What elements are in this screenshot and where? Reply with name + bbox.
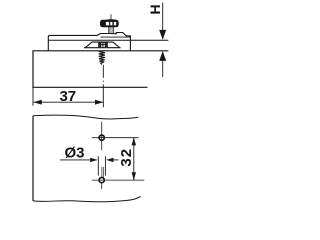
hole inner pair lines above lower hole xyxy=(101,167,103,177)
lower hole horizontal centerline xyxy=(92,179,145,181)
panel left edge (plan view) xyxy=(32,116,34,201)
svg-text:H: H xyxy=(147,4,163,14)
diameter 3 right arrow xyxy=(106,158,113,162)
panel top break edge xyxy=(33,115,139,119)
arrow right of 37 xyxy=(95,100,103,105)
plate mid line xyxy=(100,36,130,38)
cam screw neck xyxy=(108,27,110,34)
dimension 32 line xyxy=(133,138,135,181)
dimension H: lower arrow (up) xyxy=(159,51,166,61)
panel bottom edge (side view) xyxy=(32,86,147,88)
dome base line xyxy=(84,47,121,49)
extension line left xyxy=(32,87,34,106)
cam screw head (top) xyxy=(104,19,118,23)
plate wing line (upper H extension) xyxy=(48,39,168,41)
dimension H: upper arrow (down) xyxy=(162,3,164,39)
lower hole xyxy=(99,178,104,183)
diameter 3 extension lines xyxy=(97,156,99,175)
upper hole xyxy=(99,135,104,140)
panel bottom break edge xyxy=(33,197,141,202)
dimension 37 line xyxy=(34,101,104,103)
arrow left of 37 xyxy=(33,100,41,105)
wood screw thread xyxy=(101,50,103,53)
dome trapezoid xyxy=(85,42,119,48)
diameter 3 left arrow xyxy=(90,158,97,162)
32 top arrow (up) xyxy=(132,137,136,145)
panel left edge (side view) xyxy=(32,50,34,87)
cam screw centerline above head xyxy=(110,14,112,20)
screw axis extension line xyxy=(102,65,104,78)
upper hole horizontal centerline xyxy=(92,137,139,139)
svg-text:Ø3: Ø3 xyxy=(64,145,84,162)
32 bottom arrow (down) xyxy=(132,172,136,180)
panel top surface line (side view, also lower H extension) xyxy=(33,50,168,52)
upper hole vertical centerline xyxy=(101,122,103,150)
lower hole vertical centerline below xyxy=(101,184,103,190)
svg-text:32: 32 xyxy=(118,148,135,167)
diameter 3 leader line xyxy=(60,159,97,161)
euro screw head in dome xyxy=(99,42,108,47)
plate profile (side view) xyxy=(48,33,130,51)
svg-text:37: 37 xyxy=(59,88,76,105)
